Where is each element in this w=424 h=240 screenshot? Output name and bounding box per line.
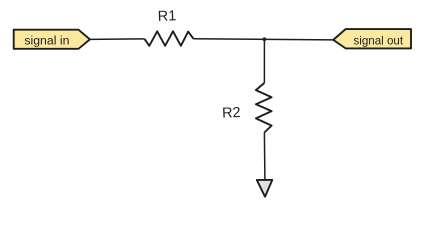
ground: [257, 180, 273, 197]
wire junction to R2: [263, 39, 265, 83]
wire R2 to ground: [263, 133, 266, 181]
svg-text:R1: R1: [158, 8, 177, 25]
svg-text:signal out: signal out: [353, 34, 403, 47]
junction node dot: [263, 37, 267, 41]
resistor R2: [222, 83, 272, 133]
node signal in (input flag): [14, 30, 90, 49]
svg-text:signal in: signal in: [24, 33, 69, 47]
resistor R1: [145, 8, 194, 46]
wire R1 to output flag: [194, 39, 334, 40]
svg-text:R2: R2: [222, 105, 241, 122]
node signal out (output flag): [333, 29, 411, 48]
wire input flag to R1: [91, 38, 145, 41]
